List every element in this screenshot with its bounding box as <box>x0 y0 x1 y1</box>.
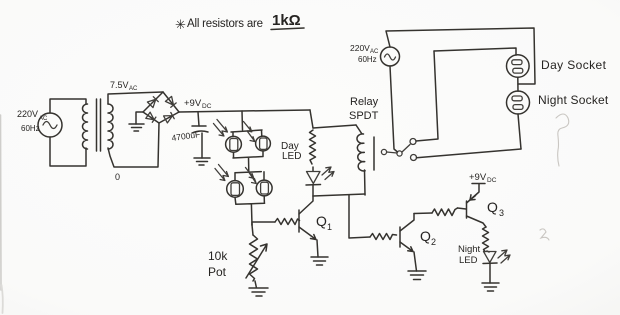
wire V2 top loop to right side <box>386 28 535 84</box>
AC source V1 220VAC 60Hz <box>17 109 62 137</box>
svg-text:DC: DC <box>202 103 212 110</box>
potentiometer 10k pot <box>246 225 267 281</box>
wire lower contact to night socket feed <box>417 149 522 158</box>
diode D4 (bridge bottom-right) <box>159 112 179 123</box>
resistor R5 (night LED) <box>483 227 489 252</box>
wire day branch top bar <box>313 125 356 128</box>
faint pencil marks <box>1 114 569 313</box>
wire R4 to Q3 base <box>458 208 467 209</box>
transformer T1 <box>83 99 114 151</box>
svg-text:7.5V: 7.5V <box>110 80 129 90</box>
wire upper contact to day socket feed <box>416 51 438 141</box>
svg-text:+9V: +9V <box>184 98 202 109</box>
wire coil bottom to bottom bar <box>364 170 367 195</box>
wire bottom bar <box>313 194 365 196</box>
svg-text:Day Socket: Day Socket <box>541 58 607 72</box>
wire V1 top to transformer primary <box>50 99 86 113</box>
wire node to base resistor <box>252 222 275 225</box>
svg-text:3: 3 <box>499 208 504 218</box>
resistor R1 (Q1 base) <box>275 219 300 225</box>
wire LDR top bar <box>231 130 262 137</box>
label Q2 <box>420 228 436 247</box>
resistor R2 (day LED) <box>310 130 316 164</box>
transistor Q3 (PNP) <box>467 184 487 227</box>
svg-text:Q: Q <box>316 213 327 229</box>
AC source V2 220VAC 60Hz <box>350 43 400 66</box>
transistor Q1 <box>299 196 318 257</box>
wire top bar to relay coil <box>356 125 362 134</box>
wire inner feed top <box>434 48 516 55</box>
wire secondary top to bridge <box>108 92 163 104</box>
wire Q2 collector to R4 <box>414 212 432 215</box>
LED Night LED <box>483 250 510 283</box>
diode D1 (bridge top-left) <box>143 92 163 112</box>
wire LDR mid bars <box>233 151 264 181</box>
capacitor C1 4700uF <box>171 112 208 158</box>
light arrows LDR1 <box>214 120 228 137</box>
svg-text:LED: LED <box>282 151 301 162</box>
relay coil K1 <box>357 134 374 171</box>
svg-text:AC: AC <box>39 116 48 122</box>
svg-text:Night: Night <box>458 244 481 255</box>
transistor Q2 <box>400 214 417 272</box>
label 10k Pot <box>208 249 228 279</box>
wire day socket bottom to night socket top <box>517 77 519 91</box>
svg-text:DC: DC <box>487 177 497 184</box>
label Q1 <box>316 213 332 232</box>
light arrows LDR4 <box>246 168 257 184</box>
LDR LDR3 <box>227 181 244 198</box>
svg-text:220V: 220V <box>17 109 38 119</box>
svg-text:✳: ✳ <box>175 17 186 32</box>
svg-text:Night Socket: Night Socket <box>538 93 609 107</box>
wire +9V rail <box>179 110 310 112</box>
LDR LDR4 <box>256 180 272 196</box>
wire rail corner down to day branch top bar <box>310 110 313 128</box>
socket Night Socket <box>507 91 530 114</box>
diode D3 (bridge bottom-left) <box>143 112 159 123</box>
wire LDR bottom bar to node <box>235 196 265 225</box>
svg-text:All resistors are: All resistors are <box>187 18 263 30</box>
wire bottom bar down to Q2 branch <box>349 195 370 238</box>
ground (pot) <box>249 281 268 296</box>
svg-text:0: 0 <box>115 172 120 182</box>
LDR LDR2 <box>256 136 271 151</box>
light arrows LDR3 <box>215 165 228 181</box>
ground (Q1) <box>311 257 328 265</box>
note: all resistors are 1kΩ <box>175 12 304 32</box>
label +9VDC (Q3) <box>469 172 497 184</box>
svg-text:Pot: Pot <box>208 265 227 279</box>
wire rail to LDR stack <box>241 111 244 130</box>
relay SPDT contacts <box>381 139 416 161</box>
svg-text:+9V: +9V <box>469 172 487 183</box>
svg-text:LED: LED <box>459 255 478 266</box>
svg-text:Q: Q <box>420 228 431 244</box>
ground (night LED) <box>482 283 499 291</box>
light arrows LDR2 <box>244 122 255 142</box>
wire V1 bottom to transformer primary <box>50 137 86 166</box>
label Relay SPDT <box>349 96 379 122</box>
wire bridge left corner to ground <box>136 112 143 124</box>
socket Day Socket <box>507 55 530 78</box>
label 7.5VAC <box>110 80 138 92</box>
LED Day LED <box>306 167 334 196</box>
svg-text:Relay: Relay <box>350 96 379 108</box>
diode D2 (bridge top-right) <box>163 92 179 112</box>
svg-text:AC: AC <box>129 86 138 92</box>
label Day LED <box>281 141 301 162</box>
label Night LED <box>458 244 481 266</box>
LDR LDR1 <box>226 136 242 152</box>
svg-text:60Hz: 60Hz <box>21 124 40 133</box>
ground (bridge) <box>129 124 144 131</box>
resistor R3 (Q2 base) <box>370 234 397 240</box>
svg-text:10k: 10k <box>208 249 228 263</box>
svg-text:60Hz: 60Hz <box>358 55 377 64</box>
svg-text:2: 2 <box>431 237 436 247</box>
resistor R4 (Q3 base) <box>432 208 458 216</box>
svg-text:Q: Q <box>487 199 498 215</box>
ground (capacitor) <box>194 158 210 165</box>
wire night socket bottom down to lower contact feed <box>518 114 521 149</box>
ground (Q2) <box>408 271 426 280</box>
wire secondary bottom to bridge <box>108 123 159 167</box>
label Q3 <box>487 199 504 218</box>
svg-text:SPDT: SPDT <box>349 110 379 122</box>
svg-text:220V: 220V <box>350 43 370 53</box>
label +9VDC <box>184 98 212 110</box>
svg-text:1: 1 <box>327 222 332 232</box>
svg-text:1kΩ: 1kΩ <box>272 12 301 29</box>
wire V2 bottom to relay common <box>390 66 398 152</box>
